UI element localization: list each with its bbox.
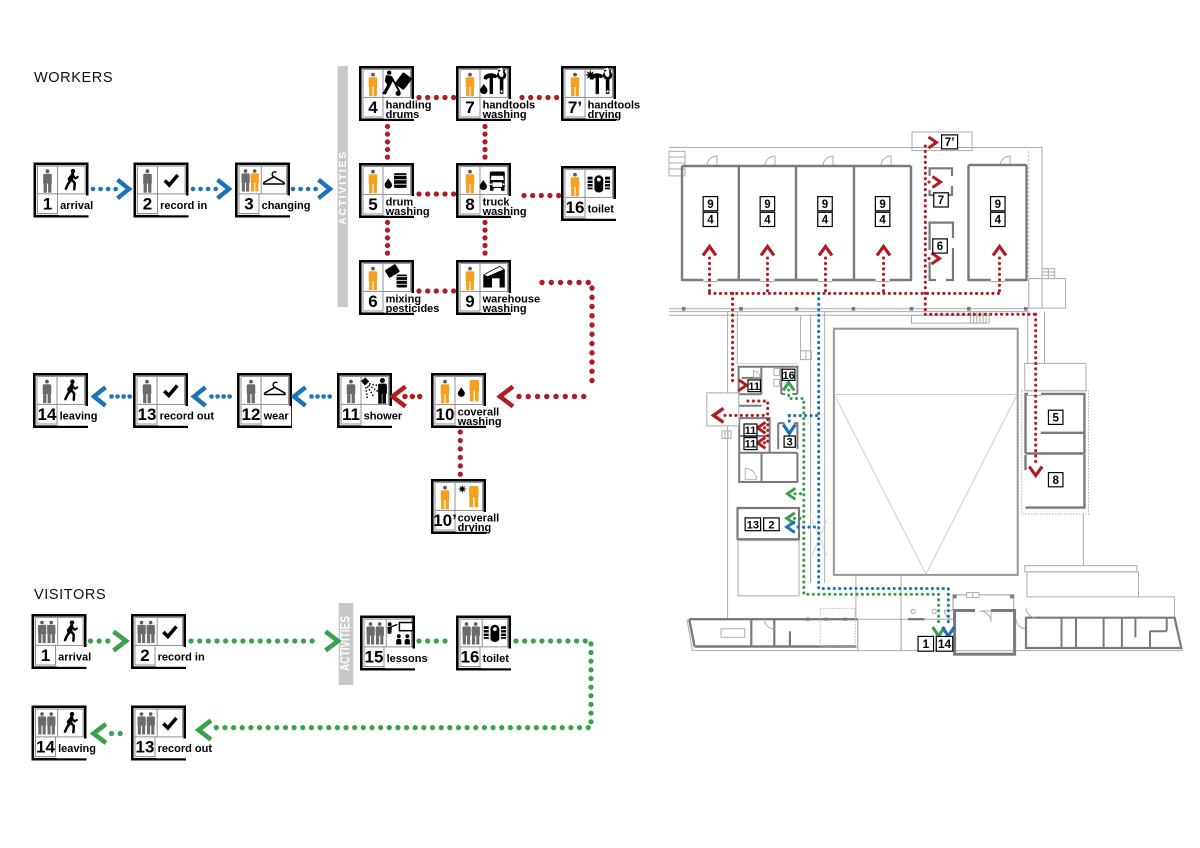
svg-text:washing: washing <box>482 206 527 218</box>
svg-text:washing: washing <box>482 303 527 315</box>
box 13 record out <box>132 707 214 759</box>
svg-text:drying: drying <box>458 522 492 534</box>
svg-text:3: 3 <box>244 194 253 213</box>
dotted storage box <box>820 608 855 646</box>
plan labels 9/4 rooms <box>703 197 718 211</box>
ramp marks <box>812 519 827 556</box>
svg-text:7’: 7’ <box>945 137 955 149</box>
box 3 changing <box>236 164 313 216</box>
box 7’ handtools <box>562 67 642 121</box>
svg-text:10’: 10’ <box>433 511 457 530</box>
box 8 truck <box>457 164 529 218</box>
open area below <box>738 541 799 596</box>
svg-text:washing: washing <box>482 109 527 121</box>
columns bottom strip <box>806 618 809 621</box>
box 9 warehouse <box>457 261 542 315</box>
floor plan <box>669 132 1183 654</box>
blue arrow 11 to 12 <box>294 387 306 406</box>
svg-text:3: 3 <box>787 437 793 449</box>
box 12 wear <box>238 374 291 426</box>
green branch to 13-2 <box>787 513 795 524</box>
red path lower horizontal <box>925 313 1035 316</box>
svg-text:10: 10 <box>436 405 455 424</box>
central hall <box>834 329 1018 575</box>
svg-text:ACTIVITIES: ACTIVITIES <box>337 616 353 671</box>
room 5 walls <box>969 164 1027 166</box>
svg-text:WORKERS: WORKERS <box>34 70 113 86</box>
blue arrow 13 to 14 <box>94 387 106 406</box>
svg-text:ACTIVITIES: ACTIVITIES <box>337 150 349 225</box>
box 1 arrival <box>35 164 96 216</box>
svg-text:4: 4 <box>764 215 771 227</box>
plan label 6 <box>933 239 948 253</box>
room 6 walls <box>930 223 953 280</box>
inner F walls <box>1134 618 1136 638</box>
band below corridor <box>912 315 990 323</box>
plan label 13 <box>745 518 761 531</box>
svg-text:4: 4 <box>995 215 1002 227</box>
red connector 7-7p <box>522 95 557 100</box>
svg-text:7’: 7’ <box>568 98 582 117</box>
blue arrow 12 to 13 <box>194 387 206 406</box>
svg-text:drums: drums <box>386 109 420 121</box>
plan label 7prime <box>942 135 958 149</box>
cluster top block walls <box>736 363 798 365</box>
green arrow visitor 1 to 2 <box>91 638 109 643</box>
activities bar workers <box>338 66 348 307</box>
red path rooms arrows <box>708 258 711 293</box>
green branch arrow mid <box>787 488 795 499</box>
svg-text:16: 16 <box>566 198 585 217</box>
svg-text:VISITORS: VISITORS <box>34 587 106 603</box>
red connector 5-6 <box>385 223 390 254</box>
svg-text:changing: changing <box>262 200 311 212</box>
protrusion 7prime <box>912 132 972 151</box>
antechamber <box>953 595 1014 611</box>
blue branch to room 3 <box>789 414 818 417</box>
corridor columns <box>682 307 686 311</box>
svg-text:9: 9 <box>995 199 1001 211</box>
svg-text:14: 14 <box>938 637 952 651</box>
box 10 coverall <box>432 374 504 428</box>
plan label 2 <box>764 518 780 531</box>
right strip walls <box>1026 618 1181 648</box>
svg-text:14: 14 <box>38 405 57 424</box>
box 6 mixing <box>360 261 442 315</box>
plan labels 11 11 <box>744 424 757 436</box>
red path cluster inner <box>748 401 768 443</box>
red path to cluster 11 <box>731 293 734 385</box>
box 14 leaving <box>33 707 99 759</box>
box 1 arrival <box>33 615 94 667</box>
svg-text:9: 9 <box>764 199 770 211</box>
stairs top-left <box>669 151 685 176</box>
svg-text:15: 15 <box>365 647 384 666</box>
box 14 leaving <box>34 374 100 426</box>
svg-text:5: 5 <box>1052 412 1059 424</box>
box 2 record in <box>135 164 210 216</box>
table <box>721 629 745 638</box>
red path 9 to 10 <box>542 283 592 390</box>
svg-text:11: 11 <box>745 439 757 451</box>
green arrow 13 to 14 <box>94 724 107 743</box>
box 7 handtools <box>457 67 537 121</box>
svg-text:leaving: leaving <box>58 743 96 755</box>
room 5R walls <box>1026 394 1085 454</box>
corridor lines <box>669 308 1029 310</box>
red connector 5-8 <box>419 191 454 196</box>
svg-text:lessons: lessons <box>387 653 428 665</box>
box 4 handling <box>360 67 434 121</box>
svg-text:1: 1 <box>41 646 50 665</box>
door arcs rooms <box>707 156 717 166</box>
svg-text:1: 1 <box>922 637 929 651</box>
red path main horizontal <box>710 292 1000 295</box>
door arc right of dark room <box>1017 620 1026 629</box>
svg-text:8: 8 <box>1052 475 1059 487</box>
room 7 walls <box>930 168 952 195</box>
svg-text:4: 4 <box>707 215 714 227</box>
box 10’ coverall <box>432 480 501 534</box>
plan label 11 top <box>748 380 761 392</box>
wall segment near entry <box>908 618 925 620</box>
svg-text:11: 11 <box>342 405 360 424</box>
plan label 5 <box>1048 410 1063 424</box>
svg-text:16: 16 <box>782 370 794 382</box>
svg-text:2: 2 <box>768 519 774 531</box>
svg-text:4: 4 <box>368 98 378 117</box>
site boundary left <box>727 312 729 620</box>
toilet fixtures <box>774 369 780 376</box>
door arc near dark room <box>945 611 954 620</box>
red connector 7-8 <box>482 127 487 158</box>
svg-text:8: 8 <box>465 195 474 214</box>
bottom strip outline <box>687 619 1183 650</box>
svg-text:2: 2 <box>140 646 149 665</box>
protrusion top-right <box>1029 279 1066 309</box>
svg-text:7: 7 <box>465 98 474 117</box>
red path to room 8R <box>1034 314 1037 464</box>
svg-text:6: 6 <box>937 241 943 253</box>
svg-text:6: 6 <box>368 292 377 311</box>
left bump <box>707 393 739 426</box>
svg-text:shower: shower <box>364 410 403 422</box>
green connector 15 to 16 <box>419 638 452 643</box>
box 16 toilet <box>562 167 616 219</box>
svg-text:13: 13 <box>136 737 155 756</box>
room 8R walls <box>1026 455 1085 508</box>
svg-text:record out: record out <box>160 410 215 422</box>
svg-text:5: 5 <box>368 195 377 214</box>
svg-text:record in: record in <box>158 651 205 663</box>
red connector 4-7 <box>419 95 454 100</box>
stairs small left <box>722 431 731 439</box>
right lower structures <box>1082 514 1084 566</box>
red path room5 arrow <box>998 258 1001 293</box>
plan label 8 <box>1048 473 1063 487</box>
svg-text:drying: drying <box>588 109 622 121</box>
lower corridor line <box>669 314 989 316</box>
svg-text:7: 7 <box>938 195 944 207</box>
svg-text:arrival: arrival <box>60 200 93 212</box>
dark room walls <box>955 611 1015 655</box>
svg-text:record in: record in <box>160 200 207 212</box>
blue path vertical <box>819 293 949 627</box>
passage verticals <box>800 315 802 351</box>
svg-text:toilet: toilet <box>588 203 615 215</box>
arrow worker 3 to activities <box>293 187 317 192</box>
svg-text:9: 9 <box>879 199 885 211</box>
svg-text:pesticides: pesticides <box>386 303 440 315</box>
box 5 drum <box>360 164 432 218</box>
stairs mid <box>970 312 972 324</box>
svg-text:16: 16 <box>461 647 480 666</box>
dotted outline right block <box>1022 391 1089 514</box>
red connector 8-9 <box>482 223 487 254</box>
blue branch to 13-2 <box>798 525 819 528</box>
cluster lower block <box>739 453 797 482</box>
svg-text:wear: wear <box>263 410 290 422</box>
plan label 16 <box>782 369 795 380</box>
plan outer boundary top <box>669 147 1042 149</box>
box 16 toilet <box>457 617 511 669</box>
svg-text:leaving: leaving <box>60 410 98 422</box>
svg-text:11: 11 <box>745 425 757 437</box>
svg-text:washing: washing <box>457 416 502 428</box>
svg-text:11: 11 <box>748 381 760 393</box>
red path vertical mid <box>924 146 927 314</box>
svg-text:toilet: toilet <box>483 653 510 665</box>
svg-text:4: 4 <box>822 215 829 227</box>
red arrow 10 to 11 <box>393 387 406 407</box>
svg-text:4: 4 <box>879 215 886 227</box>
red connector 6-9 <box>419 288 454 293</box>
red path exit left <box>725 414 766 417</box>
plan label 14 <box>936 636 953 651</box>
rooms 9/4 walls <box>682 165 911 167</box>
svg-text:washing: washing <box>385 206 430 218</box>
red connector 4-5 <box>385 127 390 158</box>
box 15 lessons <box>361 617 430 669</box>
box 11 shower <box>338 374 404 426</box>
svg-text:12: 12 <box>242 405 261 424</box>
room 13-2 walls <box>738 508 800 539</box>
svg-text:record out: record out <box>158 743 213 755</box>
plan label 7 <box>934 193 949 207</box>
svg-text:9: 9 <box>822 199 828 211</box>
svg-text:9: 9 <box>707 199 713 211</box>
svg-text:13: 13 <box>747 519 759 531</box>
svg-text:1: 1 <box>43 194 52 213</box>
green return path 16 to 13 <box>216 641 591 728</box>
svg-text:2: 2 <box>143 194 152 213</box>
plan label 1 <box>918 636 934 651</box>
svg-text:9: 9 <box>465 292 474 311</box>
red connector 8-16 <box>524 193 559 198</box>
green path visitor 2 to activities <box>191 638 320 643</box>
green path from 16 <box>783 383 794 391</box>
plan label 3 <box>784 436 795 447</box>
svg-text:13: 13 <box>138 405 157 424</box>
cluster mid walls <box>739 405 761 407</box>
svg-text:14: 14 <box>36 737 55 756</box>
stairs top-right <box>1042 269 1055 279</box>
right upper small rect <box>1025 363 1086 390</box>
arrow worker 2 to 3 <box>193 187 217 192</box>
bottom strip walls <box>689 618 858 620</box>
activities bar visitors <box>339 603 354 685</box>
red connector 10 to 10prime <box>458 432 463 476</box>
box 2 record in <box>132 615 207 667</box>
door arc strip <box>765 619 775 629</box>
svg-text:arrival: arrival <box>58 651 91 663</box>
arrow worker 1 to 2 <box>93 187 117 192</box>
small circles <box>911 609 915 613</box>
hall lower columns <box>855 575 857 619</box>
box 13 record out <box>134 374 216 426</box>
